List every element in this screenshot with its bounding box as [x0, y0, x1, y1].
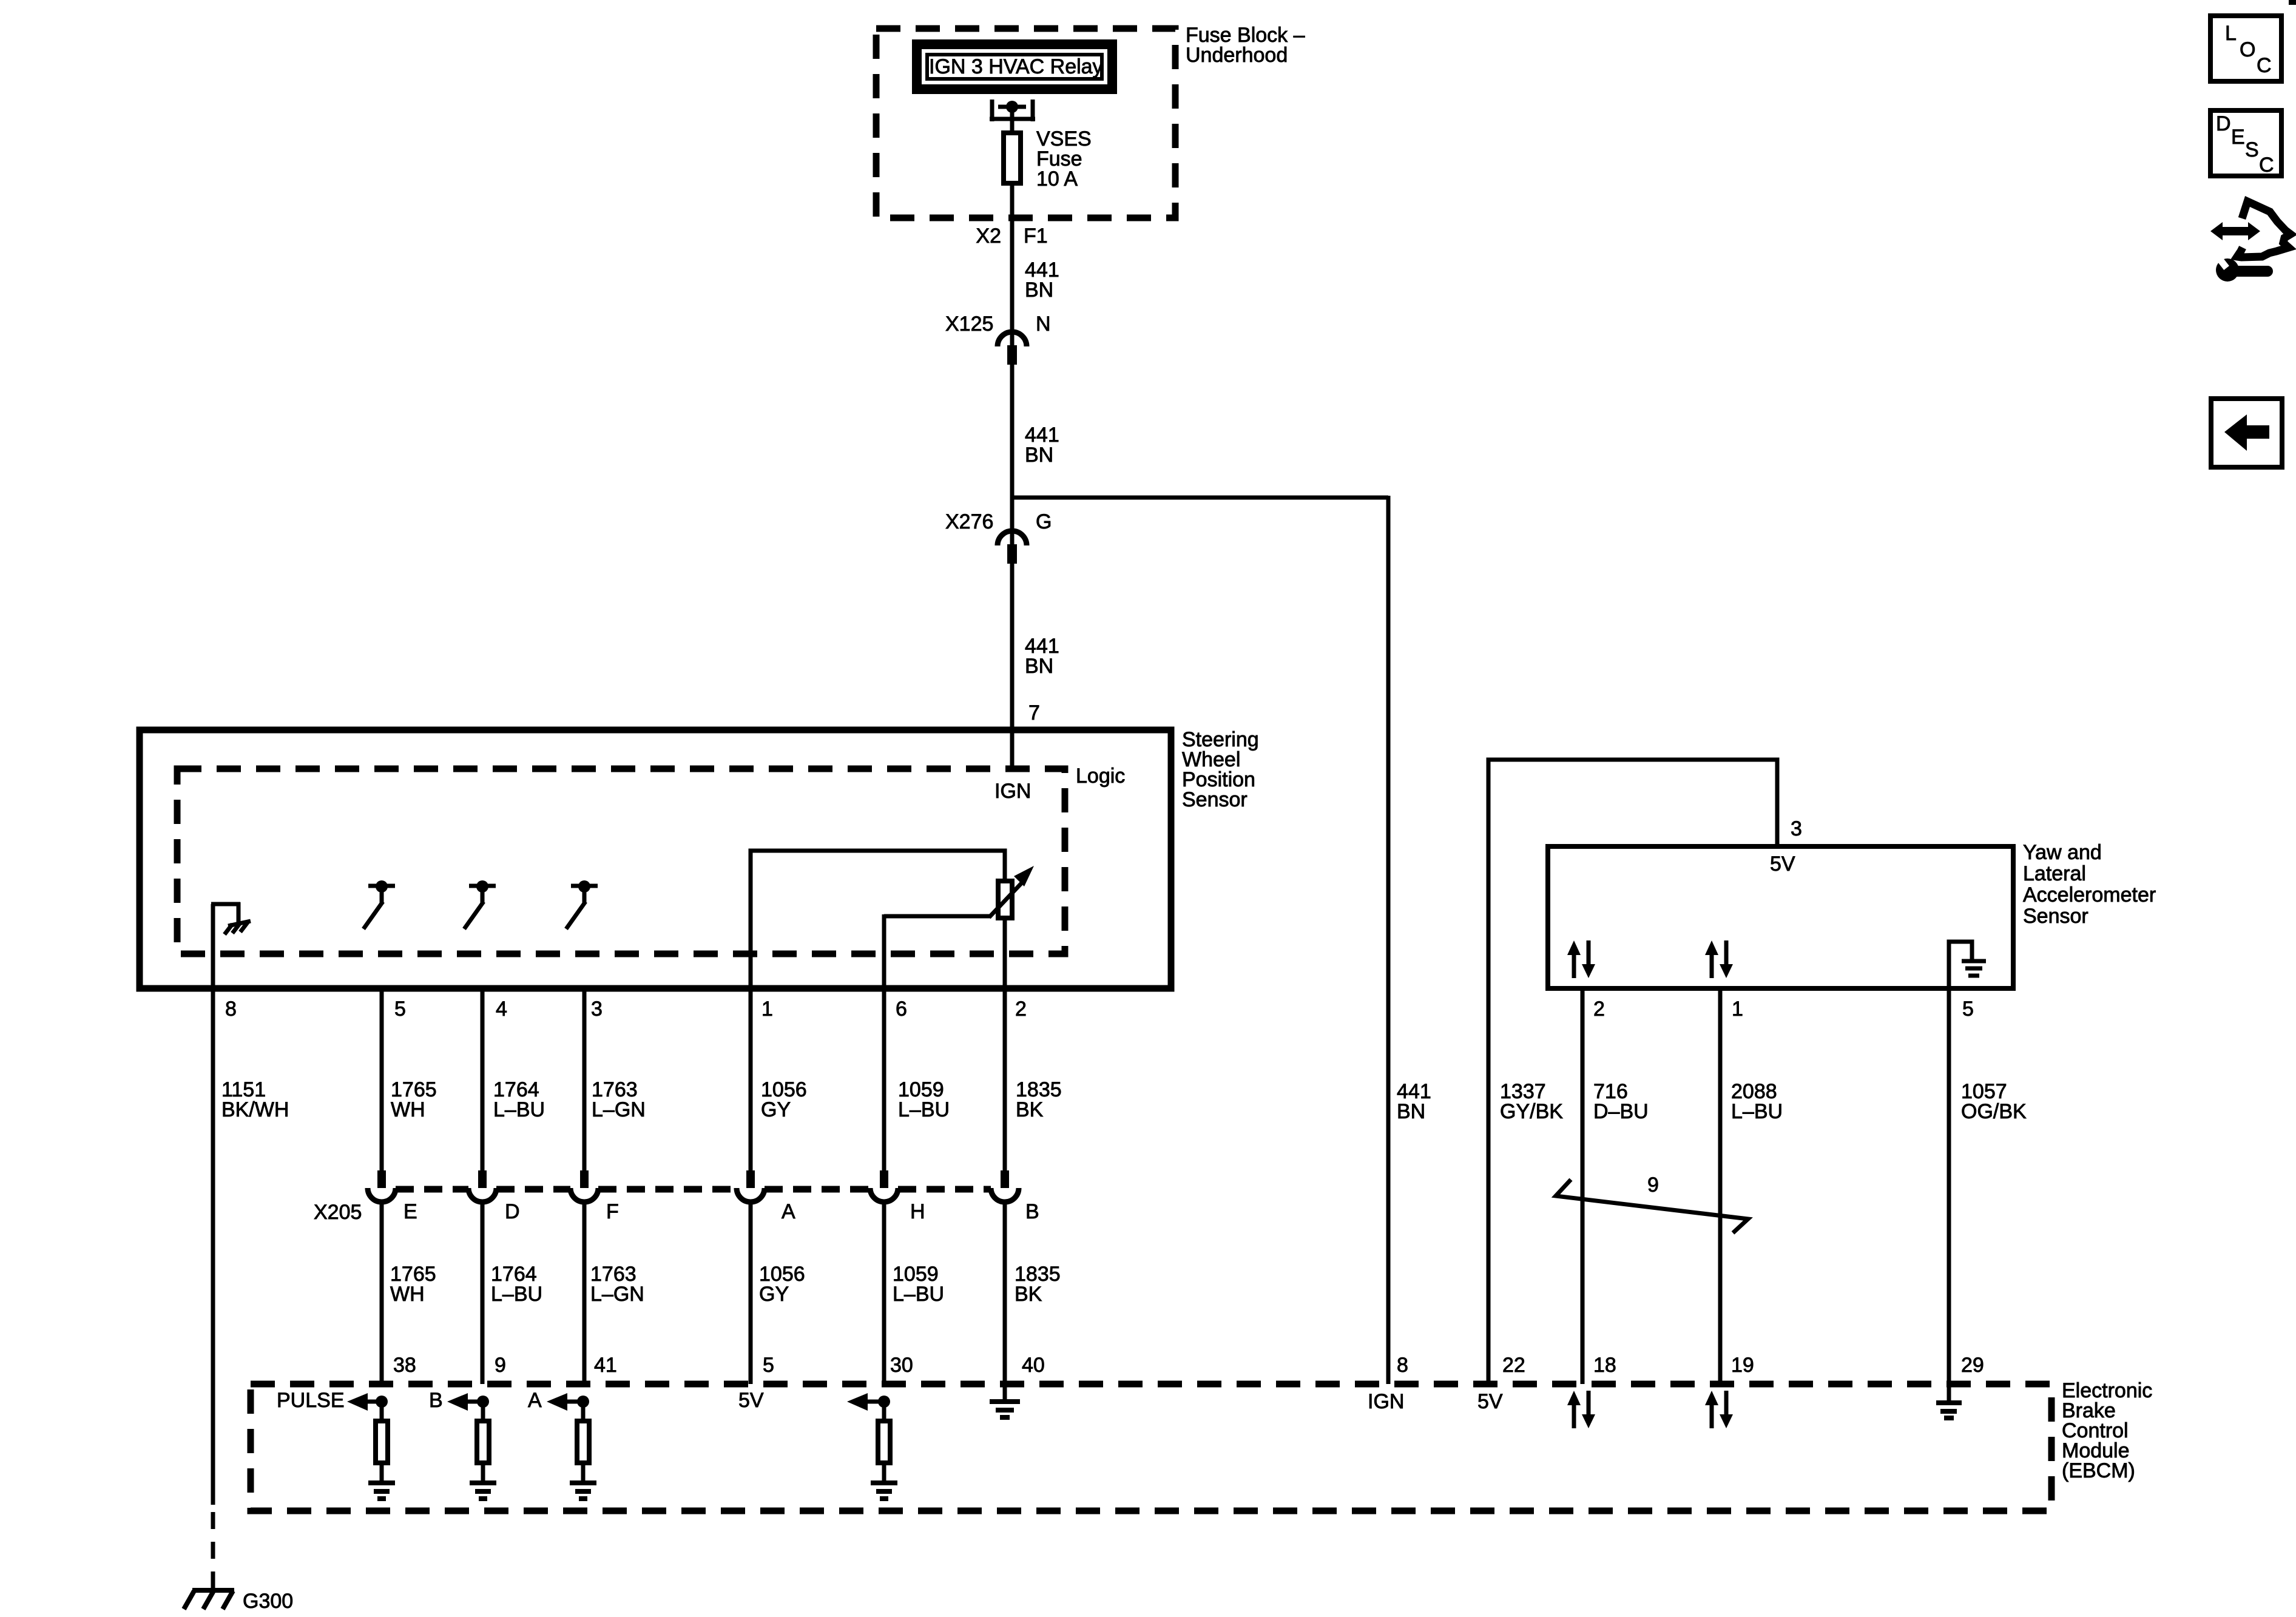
- switch (pin 4) in sensor: [464, 880, 496, 929]
- svg-text:BK/WH: BK/WH: [221, 1098, 289, 1121]
- svg-text:3: 3: [1791, 817, 1802, 840]
- icon adjust/repair (wrench): [2216, 256, 2267, 282]
- svg-text:X276: X276: [945, 510, 993, 533]
- icon LOC (box): [2210, 16, 2281, 81]
- relay K1 label: [929, 55, 1103, 78]
- twisted pair marker 9: [1556, 1173, 1748, 1233]
- EBCM 5V label (pin 22): [1477, 1390, 1503, 1413]
- svg-text:L: L: [2225, 22, 2237, 45]
- EBCM PULSE arrow + pulldown resistor + ground: [347, 1393, 395, 1499]
- wire label 1337 GY/BK: [1500, 1080, 1563, 1123]
- svg-text:8: 8: [225, 998, 237, 1021]
- svg-text:BN: BN: [1397, 1100, 1425, 1123]
- svg-text:GY: GY: [761, 1098, 791, 1121]
- icon DESC (box): [2210, 110, 2281, 176]
- svg-text:8: 8: [1397, 1354, 1408, 1377]
- wire label 441 BN (segment 1): [1025, 258, 1059, 302]
- X205 dashed connector line: [496, 1186, 570, 1193]
- potentiometer R1 (variable resistor): [998, 881, 1012, 988]
- wire label 1765 WH (lower): [390, 1263, 436, 1306]
- svg-text:E: E: [403, 1200, 417, 1223]
- logic block (dashed box): [177, 769, 1065, 954]
- svg-text:41: 41: [594, 1354, 617, 1377]
- ground G300 label: [243, 1590, 293, 1613]
- wire 2088 L-BU (yaw 1 to EBCM 19): [1718, 988, 1723, 1384]
- svg-text:2: 2: [1015, 998, 1027, 1021]
- yaw pin numbers 2 1 5: [1593, 998, 1974, 1021]
- connector X205 terminal F: [570, 1170, 619, 1223]
- wire label 1057 OG/BK: [1961, 1080, 2027, 1123]
- svg-text:1: 1: [1732, 998, 1743, 1021]
- connector X276 pin G label: [945, 510, 1052, 533]
- wire 1056 GY (sensor to X205): [749, 988, 753, 1170]
- wire 441 BN from X125 to X276: [1010, 365, 1015, 545]
- svg-text:L–BU: L–BU: [1731, 1100, 1783, 1123]
- wire label 2088 L-BU: [1731, 1080, 1783, 1123]
- svg-text:6: 6: [896, 998, 907, 1021]
- svg-text:L–BU: L–BU: [491, 1283, 542, 1306]
- svg-text:B: B: [429, 1389, 443, 1412]
- svg-text:Logic: Logic: [1076, 765, 1125, 788]
- fuse block - underhood label: [1186, 24, 1305, 67]
- relay contact bracket: [990, 100, 1035, 135]
- svg-text:GY/BK: GY/BK: [1500, 1100, 1563, 1123]
- connector X205 terminal A: [737, 1170, 795, 1223]
- potentiometer feed wire (pin 1 to top): [751, 851, 1005, 988]
- EBCM A input label: [528, 1389, 542, 1412]
- fuse block - underhood (dashed box): [876, 29, 1175, 218]
- svg-text:9: 9: [1647, 1173, 1659, 1197]
- EBCM 5V label (pin 5): [738, 1389, 764, 1412]
- svg-text:Lateral: Lateral: [2023, 862, 2086, 885]
- pin 7 label: [1028, 701, 1040, 724]
- potentiometer wiper arrow: [884, 866, 1034, 917]
- wire 1151 BK/WH (dashed tail to G300): [211, 1505, 215, 1588]
- X205 dashed connector line: [898, 1186, 991, 1193]
- electronic brake control module EBCM (dashed box): [251, 1384, 2051, 1511]
- node: branch of 441 BN to EBCM: [1012, 496, 1388, 500]
- EBCM B arrow + pulldown resistor + ground: [447, 1393, 496, 1499]
- wire label 1764 L–BU (lower): [491, 1263, 542, 1306]
- wire 1059 L–BU (X205 to EBCM): [882, 1202, 886, 1384]
- yaw signal arrows (pin 1): [1705, 940, 1733, 978]
- fuse F1 value label: [1036, 127, 1092, 191]
- svg-text:22: 22: [1502, 1354, 1525, 1377]
- svg-text:S: S: [2245, 138, 2259, 161]
- wire label 1059 L–BU (upper): [898, 1078, 950, 1121]
- svg-text:5V: 5V: [738, 1389, 764, 1412]
- sensor pin numbers 8 5 4 3 1 6 2: [225, 998, 1027, 1021]
- wire label 1056 GY (upper): [761, 1078, 807, 1121]
- yaw internal ground: [1949, 942, 1986, 988]
- svg-text:7: 7: [1028, 701, 1040, 724]
- wire 441 BN from fuse to X125: [1010, 183, 1015, 345]
- svg-text:L–GN: L–GN: [590, 1283, 644, 1306]
- yaw pin 3 label: [1791, 817, 1802, 840]
- wire 441 BN from X276 to sensor pin 7: [1010, 564, 1015, 769]
- yaw signal arrows (pin 2): [1567, 940, 1595, 978]
- svg-text:WH: WH: [391, 1098, 425, 1121]
- icon back (box): [2211, 399, 2282, 467]
- svg-text:18: 18: [1593, 1354, 1616, 1377]
- wire label 1835 BK (upper): [1016, 1078, 1062, 1121]
- wire 716 D-BU (yaw 2 to EBCM 18): [1581, 988, 1585, 1384]
- EBCM A arrow + pulldown resistor + ground: [547, 1393, 596, 1499]
- wire label 716 D-BU: [1593, 1080, 1649, 1123]
- icon back (arrow): [2224, 414, 2269, 451]
- connector X205 terminal D: [468, 1170, 520, 1223]
- wire 1337 5V loop (EBCM 22 to yaw pin 3): [1488, 760, 1777, 1384]
- svg-text:D: D: [505, 1200, 520, 1223]
- pin labels X2 / F1: [976, 224, 1047, 248]
- svg-text:Sensor: Sensor: [2023, 905, 2088, 928]
- svg-text:WH: WH: [390, 1283, 425, 1306]
- EBCM label: [2062, 1379, 2152, 1482]
- EBCM signal arrows (pin 18): [1567, 1391, 1595, 1428]
- wire 1151 BK/WH label: [221, 1078, 289, 1121]
- relay K1 IGN 3 HVAC Relay (bold box): [917, 44, 1112, 89]
- wire label 1056 GY (lower): [759, 1263, 805, 1306]
- wire 1151 BK/WH (pin 8 to G300, solid part): [211, 988, 215, 1505]
- svg-text:Underhood: Underhood: [1186, 44, 1288, 67]
- svg-text:IGN 3 HVAC Relay: IGN 3 HVAC Relay: [929, 55, 1103, 78]
- svg-text:38: 38: [393, 1354, 416, 1377]
- svg-text:X205: X205: [314, 1201, 362, 1224]
- svg-text:BN: BN: [1025, 444, 1053, 467]
- svg-text:Accelerometer: Accelerometer: [2023, 883, 2156, 906]
- svg-text:BN: BN: [1025, 279, 1053, 302]
- wire label 1835 BK (lower): [1015, 1263, 1061, 1306]
- yaw 5V node label: [1770, 852, 1795, 876]
- wire 1056 GY (X205 to EBCM): [749, 1202, 753, 1384]
- svg-text:30: 30: [890, 1354, 913, 1377]
- svg-text:5V: 5V: [1770, 852, 1795, 876]
- svg-text:O: O: [2240, 38, 2255, 61]
- svg-text:Sensor: Sensor: [1182, 788, 1248, 811]
- connector X205 terminal E: [368, 1170, 417, 1223]
- svg-text:BN: BN: [1025, 655, 1053, 678]
- svg-text:IGN: IGN: [1368, 1390, 1404, 1413]
- svg-text:L–BU: L–BU: [893, 1283, 944, 1306]
- X205 dashed connector line: [396, 1186, 468, 1193]
- EBCM pin 40 internal ground: [990, 1384, 1020, 1417]
- svg-text:19: 19: [1731, 1354, 1754, 1377]
- icon DESC letters: [2216, 112, 2274, 177]
- EBCM pin 29 internal ground: [1936, 1384, 1962, 1418]
- wire label 1764 L–BU (upper): [493, 1078, 545, 1121]
- wire label 441 BN (segment 3): [1025, 635, 1059, 678]
- svg-text:N: N: [1036, 312, 1051, 336]
- svg-text:PULSE: PULSE: [277, 1389, 345, 1412]
- svg-text:A: A: [782, 1200, 795, 1223]
- wire 1057 OG/BK (yaw 5 to EBCM 29): [1947, 988, 1951, 1384]
- svg-text:A: A: [528, 1389, 542, 1412]
- steering wheel position sensor (box): [140, 730, 1171, 988]
- svg-text:2: 2: [1593, 998, 1605, 1021]
- EBCM pin 30 arrow + pulldown resistor + ground: [847, 1393, 897, 1499]
- wire label 1765 WH (upper): [391, 1078, 437, 1121]
- svg-text:4: 4: [496, 998, 507, 1021]
- connector X205 terminal H: [870, 1170, 925, 1223]
- svg-text:F: F: [606, 1200, 619, 1223]
- svg-text:BK: BK: [1016, 1098, 1044, 1121]
- svg-text:40: 40: [1022, 1354, 1045, 1377]
- EBCM IGN label (pin 8): [1368, 1390, 1404, 1413]
- IGN node label: [994, 780, 1031, 803]
- svg-text:C: C: [2257, 54, 2272, 77]
- page corner mark: [2289, 0, 2296, 5]
- svg-text:D: D: [2216, 112, 2231, 135]
- wire label 441 BN (segment 2): [1025, 424, 1059, 467]
- wire label 1763 L–GN (lower): [590, 1263, 644, 1306]
- svg-text:29: 29: [1961, 1354, 1984, 1377]
- svg-text:5: 5: [394, 998, 406, 1021]
- svg-text:L–GN: L–GN: [592, 1098, 646, 1121]
- svg-text:3: 3: [591, 998, 603, 1021]
- icon LOC letters: [2225, 22, 2272, 77]
- internal ground (chassis) of sensor: [211, 902, 251, 988]
- yaw and lateral accelerometer sensor (box): [1548, 846, 2013, 988]
- wire 1764 L–BU (sensor to X205): [481, 988, 485, 1170]
- svg-text:(EBCM): (EBCM): [2062, 1459, 2135, 1482]
- EBCM B input label: [429, 1389, 443, 1412]
- svg-text:F1: F1: [1024, 224, 1048, 248]
- wiper wire (pin 6): [882, 914, 886, 988]
- svg-text:L–BU: L–BU: [898, 1098, 950, 1121]
- logic label: [1076, 765, 1125, 788]
- svg-text:G: G: [1036, 510, 1052, 533]
- svg-text:D–BU: D–BU: [1593, 1100, 1649, 1123]
- wire 1765 WH (sensor to X205): [380, 988, 384, 1170]
- svg-text:GY: GY: [759, 1283, 789, 1306]
- svg-text:E: E: [2231, 126, 2245, 149]
- svg-text:Yaw and: Yaw and: [2023, 841, 2102, 864]
- steering wheel position sensor label: [1182, 728, 1259, 811]
- svg-text:X2: X2: [976, 224, 1001, 248]
- svg-text:IGN: IGN: [994, 780, 1031, 803]
- svg-text:C: C: [2259, 154, 2274, 177]
- svg-text:B: B: [1025, 1200, 1039, 1223]
- icon adjust/repair (double arrow): [2210, 222, 2260, 240]
- switch (pin 5) in sensor: [363, 880, 395, 929]
- svg-text:H: H: [910, 1200, 925, 1223]
- icon adjust/repair (panel outline): [2237, 201, 2291, 257]
- svg-text:L–BU: L–BU: [493, 1098, 545, 1121]
- svg-text:5: 5: [763, 1354, 774, 1377]
- switch (pin 3) in sensor: [566, 880, 598, 929]
- svg-text:10 A: 10 A: [1036, 167, 1078, 191]
- connector X276 (inline connector symbol): [998, 531, 1027, 564]
- wire 1764 L–BU (X205 to EBCM): [481, 1202, 485, 1384]
- svg-text:OG/BK: OG/BK: [1961, 1100, 2027, 1123]
- EBCM signal arrows (pin 19): [1705, 1391, 1733, 1428]
- wire 441 BN vertical branch to EBCM pin 8: [1386, 496, 1391, 1384]
- wire 1763 L–GN (sensor to X205): [582, 988, 587, 1170]
- X205 dashed connector line: [598, 1186, 737, 1193]
- svg-text:9: 9: [495, 1354, 506, 1377]
- svg-text:X125: X125: [945, 312, 993, 336]
- connector X205 terminal B: [991, 1170, 1039, 1223]
- EBCM pin numbers: [393, 1354, 1984, 1377]
- svg-text:G300: G300: [243, 1590, 293, 1613]
- yaw sensor label: [2023, 841, 2156, 928]
- svg-text:5V: 5V: [1477, 1390, 1503, 1413]
- wire 1835 BK (sensor to X205): [1003, 988, 1007, 1170]
- wire 1059 L–BU (sensor to X205): [882, 988, 886, 1170]
- connector X205 label: [314, 1201, 362, 1224]
- wire label 441 BN (branch): [1397, 1080, 1431, 1123]
- wire label 1059 L–BU (lower): [893, 1263, 944, 1306]
- ground G300 (chassis ground symbol): [184, 1590, 234, 1609]
- EBCM PULSE input label: [277, 1389, 345, 1412]
- svg-text:5: 5: [1962, 998, 1974, 1021]
- svg-text:1: 1: [761, 998, 773, 1021]
- wire 1763 L–GN (X205 to EBCM): [582, 1202, 587, 1384]
- X205 dashed connector line: [765, 1186, 870, 1193]
- wire 1835 BK (X205 to EBCM): [1003, 1202, 1007, 1384]
- connector X125 (inline connector symbol): [998, 332, 1027, 365]
- wire 1765 WH (X205 to EBCM): [380, 1202, 384, 1384]
- fuse F1 VSES 10A (symbol): [1004, 133, 1021, 183]
- connector X125 pin N label: [945, 312, 1051, 336]
- wire label 1763 L–GN (upper): [592, 1078, 646, 1121]
- svg-text:BK: BK: [1015, 1283, 1042, 1306]
